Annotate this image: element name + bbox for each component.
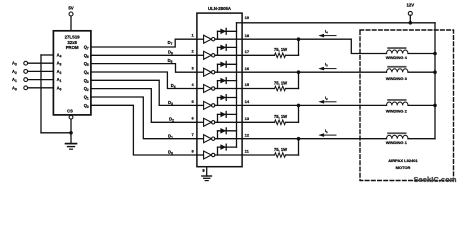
svg-text:ULN-2805A: ULN-2805A <box>208 6 231 11</box>
svg-text:WINDING 4: WINDING 4 <box>386 55 408 60</box>
resistor R3 75 ohm 1W <box>242 114 298 125</box>
pin number 8 <box>191 148 194 153</box>
wire Q4 to ULN input D4 <box>91 72 197 89</box>
buffer/diode channel 2 (pin 2 -> pin 17) <box>197 45 242 60</box>
wire pin 16 to winding 3 <box>242 71 386 73</box>
pin number 16 <box>245 66 250 71</box>
input terminal A1 <box>12 77 62 83</box>
wire supply rail vertical <box>434 23 436 139</box>
svg-text:WINDING 2: WINDING 2 <box>386 108 408 113</box>
wire Q5 to ULN input D5 <box>91 64 197 73</box>
svg-text:WINDING 3: WINDING 3 <box>386 76 408 81</box>
net label D6 <box>168 49 173 55</box>
driver U2 ULN-2805A box <box>197 6 242 167</box>
power terminal 12V <box>406 2 414 24</box>
svg-text:Q1: Q1 <box>84 95 89 101</box>
wire A4 tie <box>41 53 62 59</box>
pin number 5 <box>191 99 194 104</box>
svg-text:75, 1W: 75, 1W <box>274 80 287 85</box>
pin number 18 <box>245 33 250 38</box>
svg-text:PROM: PROM <box>66 45 79 50</box>
pin label Q2 <box>84 86 89 92</box>
wire ULN pin 10 to 12V rail <box>242 22 435 24</box>
svg-text:75, 1W: 75, 1W <box>274 147 287 152</box>
pin number 14 <box>245 99 250 104</box>
pin number 11 <box>245 149 250 154</box>
svg-text:D1: D1 <box>168 133 173 139</box>
wire A4-to-ground vertical <box>40 55 42 133</box>
svg-text:D0: D0 <box>168 150 173 156</box>
winding 2 (inductor) <box>386 99 408 113</box>
svg-text:D4: D4 <box>171 83 176 89</box>
svg-text:A1: A1 <box>12 77 17 83</box>
pin number 15 <box>245 82 250 87</box>
pin number 4 <box>191 82 194 87</box>
svg-text:A3: A3 <box>57 61 62 67</box>
pin label Q3 <box>84 78 89 84</box>
buffer/diode channel 6 (pin 6 -> pin 13) <box>197 112 242 127</box>
pin number 7 <box>191 132 194 137</box>
pin number 17 <box>245 49 250 54</box>
wire Q2 to ULN input D2 <box>91 89 197 123</box>
wire resistor R2 riser <box>298 72 300 88</box>
net label D1 <box>168 133 173 139</box>
svg-text:A2: A2 <box>12 69 17 75</box>
net label D7 <box>168 40 173 46</box>
buffer/diode channel 5 (pin 5 -> pin 14) <box>197 95 242 110</box>
input terminal A2 <box>12 69 62 75</box>
svg-text:A0: A0 <box>57 85 62 91</box>
wire winding 2 to rail <box>408 104 435 106</box>
svg-text:Q3: Q3 <box>84 78 89 84</box>
pin label Q5 <box>84 61 89 67</box>
pin label Q0 <box>84 103 89 109</box>
wire winding 1 to rail <box>408 138 435 140</box>
pin number 1 <box>191 33 194 38</box>
pin number 6 <box>191 116 194 121</box>
svg-text:10: 10 <box>245 15 250 20</box>
svg-text:16: 16 <box>245 66 250 71</box>
svg-text:13: 13 <box>245 116 250 121</box>
svg-text:AIRPAX L82401: AIRPAX L82401 <box>388 158 418 163</box>
wire winding 4 to rail <box>408 53 435 55</box>
svg-text:D7: D7 <box>168 40 173 46</box>
wire resistor R4 riser <box>298 139 300 155</box>
svg-text:14: 14 <box>245 99 250 104</box>
pin label Q7 <box>84 45 89 51</box>
svg-text:CS: CS <box>67 109 73 114</box>
wire winding 3 to rail <box>408 71 435 73</box>
wire pin 18 to winding 4 <box>242 39 386 53</box>
wire resistor R3 riser <box>298 105 300 122</box>
PROM U1 27LS19 32x8 <box>53 31 91 115</box>
pin number 10 <box>245 15 250 20</box>
node junction group 3 <box>297 104 301 108</box>
svg-text:A4: A4 <box>57 53 62 59</box>
svg-text:A0: A0 <box>12 85 17 91</box>
buffer/diode channel 7 (pin 7 -> pin 12) <box>197 128 242 143</box>
node winding 3 rail junction <box>433 70 437 74</box>
svg-text:17: 17 <box>245 49 250 54</box>
svg-text:WINDING 1: WINDING 1 <box>386 140 408 145</box>
wire Q1 to ULN input D1 <box>91 97 197 139</box>
net label D0 <box>168 150 173 156</box>
svg-text:MOTOR: MOTOR <box>396 165 411 170</box>
wire resistor R1 riser <box>298 39 300 55</box>
node junction group 1 <box>297 37 301 41</box>
svg-text:Q2: Q2 <box>84 86 89 92</box>
svg-text:75, 1W: 75, 1W <box>274 47 287 52</box>
pin number 3 <box>191 66 194 71</box>
buffer/diode channel 3 (pin 3 -> pin 16) <box>197 61 242 76</box>
resistor R4 75 ohm 1W <box>242 147 298 158</box>
pin label Q1 <box>84 95 89 101</box>
buffer/diode channel 8 (pin 8 -> pin 11) <box>197 144 242 159</box>
net label D2 <box>169 117 174 123</box>
winding 4 (inductor) <box>386 47 408 60</box>
node winding 4 rail junction <box>433 52 437 56</box>
input terminal A3 <box>12 61 62 67</box>
wire Q3 to ULN input D3 <box>91 80 197 105</box>
svg-text:I2: I2 <box>325 95 328 101</box>
svg-text:D2: D2 <box>169 117 174 123</box>
resistor R2 75 ohm 1W <box>242 80 298 91</box>
svg-text:12V: 12V <box>406 2 414 7</box>
watermark <box>413 175 456 184</box>
buffer/diode channel 4 (pin 4 -> pin 15) <box>197 78 242 93</box>
wire pin 14 to winding 2 <box>242 104 386 106</box>
svg-text:I3: I3 <box>325 62 328 68</box>
pin number 13 <box>245 116 250 121</box>
pin 9 ground <box>202 167 212 181</box>
svg-text:18: 18 <box>245 33 250 38</box>
winding 1 (inductor) <box>386 132 408 145</box>
svg-text:Q5: Q5 <box>84 61 89 67</box>
ground (PROM CS) <box>66 144 77 150</box>
node junction group 4 <box>297 137 301 141</box>
current arrow I4 <box>318 29 336 38</box>
wire Q6 to ULN input D6 <box>91 54 197 56</box>
pin CS <box>67 109 73 144</box>
wire Q7 to ULN input D7 <box>91 39 197 47</box>
wire Q0 to ULN input D0 <box>91 105 197 155</box>
svg-text:75, 1W: 75, 1W <box>274 114 287 119</box>
pin label Q4 <box>84 70 89 76</box>
current arrow I1 <box>318 128 336 137</box>
pin number 12 <box>245 132 250 137</box>
svg-text:5V: 5V <box>68 6 73 11</box>
pin number 2 <box>191 49 194 54</box>
svg-text:D6: D6 <box>168 49 173 55</box>
resistor R1 75 ohm 1W <box>242 47 298 58</box>
node winding 2 rail junction <box>433 104 437 108</box>
net label D3 <box>168 100 173 106</box>
svg-text:D3: D3 <box>168 100 173 106</box>
current arrow I3 <box>318 62 336 71</box>
buffer/diode channel 1 (pin 1 -> pin 18) <box>197 28 242 43</box>
wire pin 12 to winding 1 <box>242 138 386 140</box>
svg-text:Q0: Q0 <box>84 103 89 109</box>
node junction group 2 <box>297 70 301 74</box>
power terminal 5V <box>68 6 73 31</box>
diode common rail <box>237 23 243 147</box>
svg-text:I1: I1 <box>325 128 328 134</box>
svg-text:Q4: Q4 <box>84 70 89 76</box>
node CS-A4 junction <box>41 131 73 135</box>
svg-text:A3: A3 <box>12 61 17 67</box>
svg-text:A2: A2 <box>57 69 62 75</box>
winding 3 (inductor) <box>386 66 408 81</box>
input terminal A0 <box>12 85 62 91</box>
svg-text:Q7: Q7 <box>84 45 89 51</box>
svg-text:A1: A1 <box>57 77 62 83</box>
svg-text:I4: I4 <box>325 29 328 35</box>
net label D4 <box>171 83 176 89</box>
net label D5 <box>168 58 173 64</box>
svg-text:12: 12 <box>245 132 250 137</box>
svg-text:D5: D5 <box>168 58 173 64</box>
motor AIRPAX L82401 (dashed enclosure) <box>360 30 454 181</box>
pin label Q6 <box>84 53 89 59</box>
svg-text:15: 15 <box>245 82 250 87</box>
svg-text:SeekIC.com: SeekIC.com <box>413 175 456 184</box>
svg-text:Q6: Q6 <box>84 53 89 59</box>
current arrow I2 <box>318 95 336 104</box>
